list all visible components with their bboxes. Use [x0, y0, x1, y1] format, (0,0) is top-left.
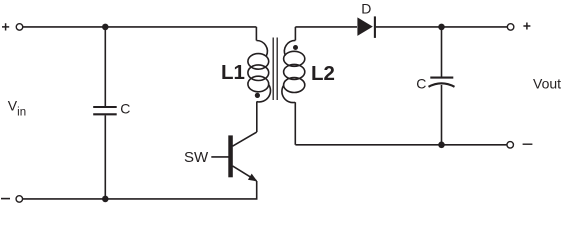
wire: output cap bottom lead [441, 85, 443, 145]
wire: bottom input rail [22, 198, 257, 200]
svg-text:L1: L1 [221, 61, 245, 84]
wire: primary top lead [255, 27, 257, 41]
input - terminal circle [16, 196, 23, 203]
input + terminal circle [16, 24, 23, 31]
inductor L2 (transformer secondary winding) [282, 40, 305, 102]
junction: output cap bottom node [438, 142, 445, 149]
svg-text:C: C [416, 75, 426, 91]
wire: diode cathode to output + [376, 26, 508, 28]
junction: output cap top node [438, 24, 445, 31]
label - (output negative terminal) [523, 143, 533, 145]
junction: input cap bottom node [102, 196, 109, 203]
label + (output positive terminal) [523, 23, 530, 30]
label - (input negative terminal) [1, 198, 10, 200]
junction: input cap top node [102, 24, 109, 31]
output - terminal circle [507, 142, 514, 149]
svg-text:Vin: Vin [8, 97, 26, 118]
wire: input cap bottom lead [104, 115, 106, 199]
output + terminal circle [507, 24, 513, 31]
transformer core [273, 38, 277, 101]
transistor SW (NPN) base bar [228, 135, 233, 177]
svg-text:C: C [120, 101, 130, 117]
capacitor C (input) [93, 107, 117, 114]
wire: bottom output rail [295, 144, 506, 146]
capacitor C (output, polarized) [429, 78, 455, 87]
svg-text:L2: L2 [311, 62, 335, 85]
inductor L1 (transformer primary winding) [248, 40, 271, 101]
wire: transistor base lead [211, 156, 228, 158]
wire: secondary to diode anode [295, 26, 357, 28]
svg-text:SW: SW [184, 149, 209, 166]
wire: top input rail [23, 26, 257, 28]
svg-text:Vout: Vout [533, 76, 561, 92]
polarity dot L1 [255, 93, 260, 98]
svg-text:D: D [361, 1, 371, 17]
label + (input positive terminal) [2, 23, 9, 30]
wire: secondary bottom lead [294, 102, 296, 145]
wire: output cap top lead [441, 27, 443, 77]
wire: secondary top lead [294, 27, 296, 41]
wire: input cap top lead [104, 27, 106, 106]
polarity dot L2 [293, 45, 298, 50]
wire: emitter to bottom rail [256, 181, 258, 199]
transistor SW collector [233, 132, 257, 146]
transistor SW emitter with arrow [233, 166, 258, 182]
wire: collector to L1 bottom lead [256, 101, 258, 132]
diode D [357, 16, 375, 38]
